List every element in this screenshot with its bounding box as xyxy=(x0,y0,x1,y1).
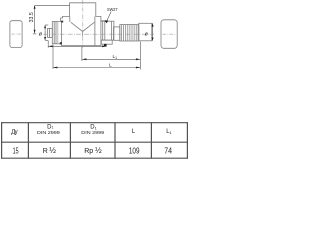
svg-text:DIN 2999: DIN 2999 xyxy=(37,130,60,135)
svg-text:SW27: SW27 xyxy=(107,7,118,12)
svg-text:DIN 2999: DIN 2999 xyxy=(81,130,104,135)
svg-text:109: 109 xyxy=(129,146,140,155)
svg-text:ø: ø xyxy=(39,31,43,37)
svg-text:15: 15 xyxy=(13,146,19,155)
svg-text:½: ½ xyxy=(49,146,56,155)
svg-text:L1: L1 xyxy=(166,129,172,135)
svg-text:33.5: 33.5 xyxy=(29,12,35,22)
svg-text:R: R xyxy=(43,148,48,155)
svg-text:Ду: Ду xyxy=(11,130,17,136)
svg-text:Rp: Rp xyxy=(84,148,93,155)
svg-text:74: 74 xyxy=(164,146,172,155)
svg-text:L1: L1 xyxy=(113,54,118,60)
svg-text:L: L xyxy=(109,62,112,68)
svg-text:½: ½ xyxy=(95,146,102,155)
